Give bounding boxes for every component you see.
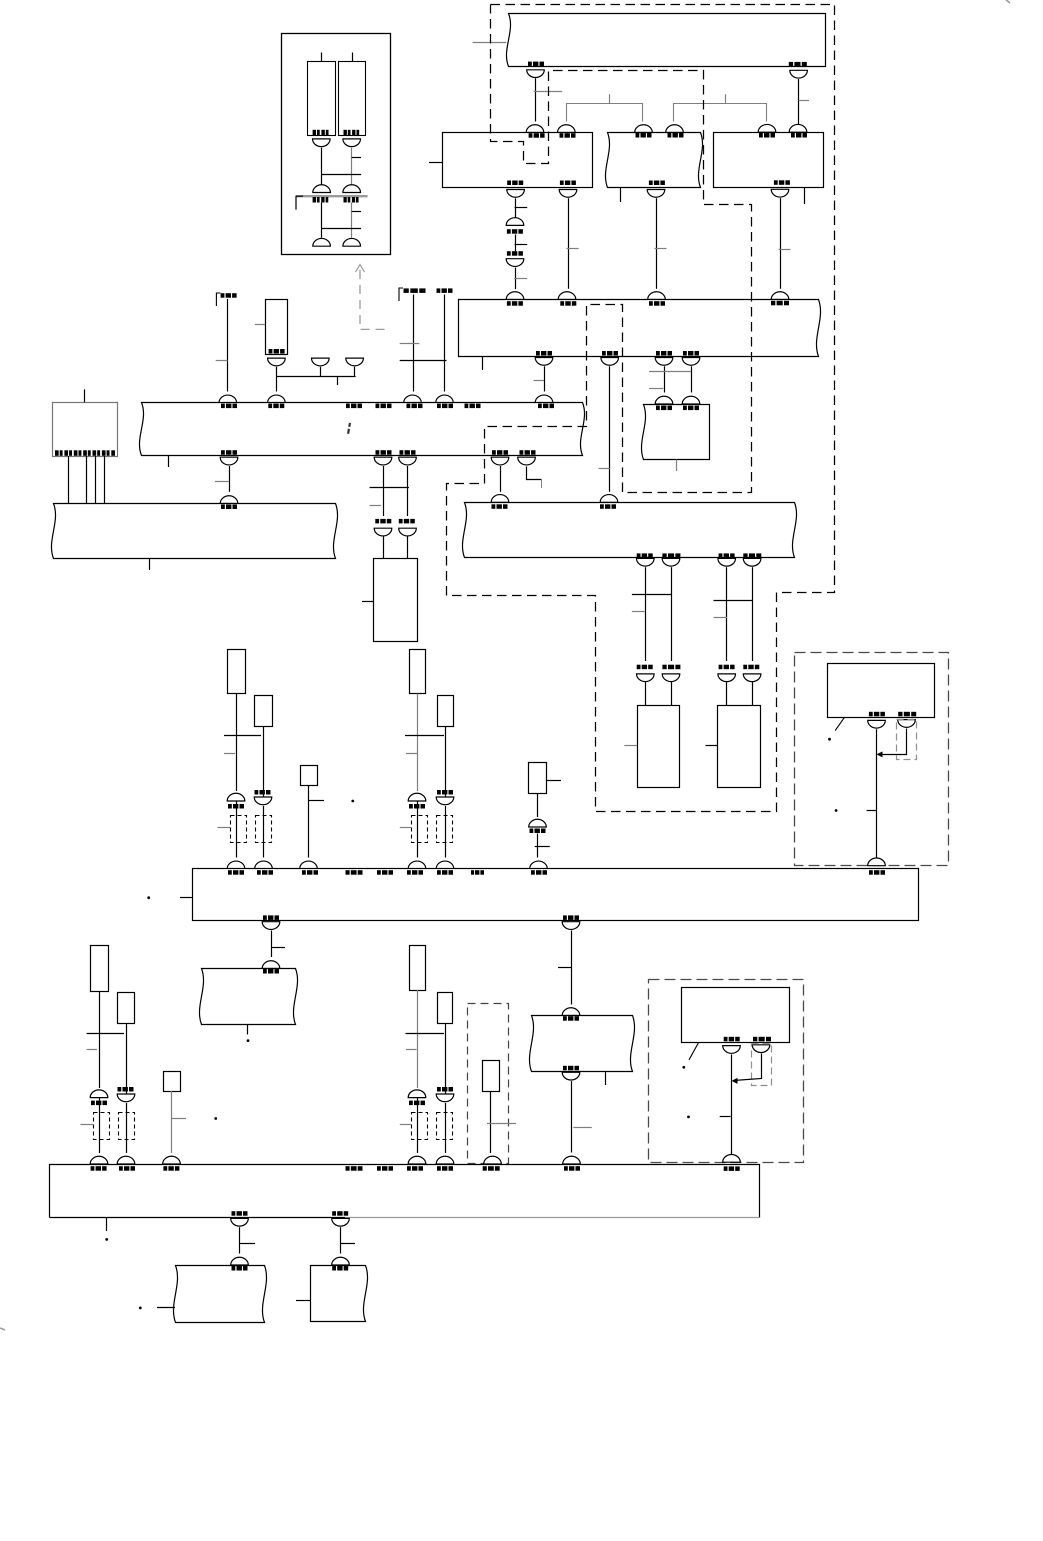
wire M-top a drop (535, 78, 537, 121)
connector bus1 e2 (374, 457, 392, 465)
label bus4 bot 2 (563, 915, 579, 920)
label J1b (507, 251, 523, 256)
connector RE1 onto bus5 (408, 1156, 426, 1164)
wire tick into D1 (400, 1124, 411, 1126)
connector R1a onto bus2 (506, 292, 524, 300)
node dot left of bus4 (147, 896, 150, 899)
wire h1 tick (240, 1243, 256, 1245)
label bus2 bot a (536, 351, 552, 356)
connector U1 bottom left (313, 238, 331, 246)
label bus1 bot 2 (376, 450, 392, 455)
label bus3 top a (492, 504, 508, 509)
label M-top pin a (528, 62, 544, 67)
component Q2 dome bracket (752, 1044, 772, 1086)
connector K2a onto bus1 (404, 395, 422, 403)
connector RC2 onto bus4 (255, 861, 273, 869)
wire R2 tick (655, 248, 667, 250)
component RB2 resistor (438, 696, 454, 727)
wire SW2 seg2 (537, 834, 539, 858)
connector on R2 a (635, 125, 653, 133)
component bracket C2 (119, 1113, 135, 1140)
connector under M-top b (790, 70, 808, 78)
connector J1b (506, 259, 524, 267)
label bus5 top 2 (119, 1166, 135, 1171)
label bus4 top 6 (407, 870, 423, 875)
connector bus4 g2 (562, 922, 580, 930)
connector U1 cell2 plug (343, 139, 361, 147)
wire tick into B1 (400, 827, 411, 829)
label bus3 bot 1 (637, 553, 653, 558)
label busL top (221, 505, 237, 510)
label bus1 bot 5 (520, 450, 536, 455)
wire R1a seg2 (515, 235, 517, 252)
wire CB1 lead4 (104, 456, 106, 504)
wire tick on drop b (799, 100, 809, 102)
label bus1 top 2 (268, 404, 284, 409)
connector on R3 a (758, 124, 776, 132)
label bus5 bot 1 (232, 1211, 248, 1216)
wire h2 tick (341, 1243, 356, 1245)
wire Q2 leader (689, 1043, 699, 1060)
connector bus3 d1 (637, 558, 655, 566)
wire R1a tick2 (515, 244, 528, 246)
wire SW3 drop (490, 1091, 492, 1153)
label bus1 bot 1 (221, 450, 237, 455)
wire R3 drop (780, 198, 782, 289)
wire e5 tick (541, 480, 543, 488)
wire RB2 seg2 (445, 806, 447, 858)
wire tick into C1 (81, 1124, 94, 1126)
label K1 bracket (216, 293, 220, 306)
connector d4 head (743, 674, 761, 682)
connector under bus2 d (682, 358, 700, 366)
label g2 (563, 1016, 579, 1021)
node arrowhead up (356, 265, 365, 273)
wire SW2 tick2 (535, 846, 550, 848)
wire RC2 seg2 (263, 806, 265, 858)
wire bus1 e1 tick (215, 481, 229, 483)
connector SW3 onto bus5 (484, 1156, 502, 1164)
label bus5 top 1 (91, 1166, 107, 1171)
connector RE2 head (436, 1094, 454, 1102)
label RE2 (437, 1087, 453, 1092)
wire RD2 seg2 (126, 1103, 128, 1153)
component bracket A1 (231, 816, 247, 843)
label CB1 pin row (55, 450, 115, 456)
component bracket D1 (412, 1113, 428, 1140)
wire g1 drop (271, 931, 273, 958)
node Q1 dot a (828, 738, 831, 741)
wire tick under bus2 (482, 357, 484, 371)
label bus2 bot b (602, 351, 618, 356)
label RB1 (409, 804, 425, 809)
node dot under bus5 (105, 1238, 108, 1241)
connector under R1 b (559, 190, 577, 198)
module CB1 connector block (53, 403, 118, 457)
wire tick into A1 (217, 827, 230, 829)
connector box6 onto bus5 (563, 1156, 581, 1164)
label bus3 bot 4 (743, 553, 761, 558)
label d2 (662, 665, 680, 670)
wire RC tick (224, 753, 235, 755)
wire g1 tick (271, 947, 285, 949)
module BUS1 main harness (139, 403, 584, 456)
label bus5 bot 2 (332, 1211, 348, 1216)
label Q2 pin b (753, 1037, 771, 1042)
connector U1 mid left (313, 185, 331, 193)
label Q2 pin a (724, 1037, 740, 1042)
wire g2 tick (558, 967, 571, 969)
label bus4 top 10 (869, 870, 885, 875)
label bus5 top 10 (724, 1166, 740, 1171)
label g1 (263, 969, 279, 974)
connector J1a (506, 218, 524, 226)
module BUS2 engine harness (459, 300, 821, 357)
label K2a (404, 288, 426, 293)
connector RB2 onto bus4 (436, 861, 454, 869)
component RC1 resistor (228, 650, 246, 694)
component bracket B2 (437, 816, 453, 843)
wire bus1 e1 drop (229, 466, 231, 492)
wire link bus a tick (609, 94, 611, 104)
wire RC2 drop (263, 726, 265, 797)
wire d1 tick (632, 611, 645, 613)
connector g1 head (262, 961, 280, 969)
wire R1b tick (567, 248, 579, 250)
label bus3 bot 2 (662, 553, 680, 558)
wire RB1 seg2 (417, 801, 419, 858)
label R3 pin top b (791, 133, 807, 138)
component SW3 switch (483, 1061, 500, 1092)
connector under bus2 b (601, 358, 619, 366)
wire tick under bus5 (106, 1218, 108, 1231)
connector under bus2 a (535, 358, 553, 366)
label U1 cell2 pins (344, 130, 360, 136)
wire left margin mark (0, 1328, 5, 1330)
wire tick under bus1 (168, 456, 170, 468)
label K2 bracket (399, 288, 403, 301)
component RE1 resistor (410, 946, 426, 991)
connector e3 head (399, 528, 417, 536)
label R3 pin bot (774, 180, 790, 185)
connector bus2b onto bus3 (600, 495, 618, 503)
label d3 (719, 665, 735, 670)
label K2b (437, 288, 453, 293)
wire RD crossbar (87, 1033, 124, 1035)
wire U1 left lead (321, 148, 323, 185)
connector RB1 head (408, 793, 426, 801)
label bus1 top 7 (465, 404, 481, 409)
wire K2b drop (444, 295, 446, 392)
wire RB tick (406, 753, 417, 755)
wire bus5 bottom edge right grey (345, 1217, 760, 1219)
component Q1 dome bracket (897, 720, 917, 760)
wire Q1 tick (867, 810, 876, 812)
wire U1 cell1 top stub (321, 53, 323, 62)
module Q2 dashed boundary (649, 980, 804, 1163)
wire tick into R1 (429, 162, 443, 164)
component bracket A2 (256, 816, 272, 843)
wire R1b drop (568, 198, 570, 288)
wire U1 crossbar a (321, 174, 361, 176)
component RE2 resistor (438, 993, 453, 1024)
label bus5 top 5 (377, 1166, 393, 1171)
wire M-top b drop (798, 79, 800, 131)
wire tick c (649, 388, 663, 390)
connector under S1 (268, 358, 286, 366)
connector under R3 (771, 189, 789, 197)
wire RE tick (406, 1049, 417, 1051)
wire RD tick (87, 1049, 97, 1051)
label h1 (232, 1266, 248, 1271)
wire d1 drop (645, 567, 647, 661)
label e3 (399, 519, 415, 524)
connector bus5 h2 (332, 1218, 350, 1226)
wire tick under R3 (804, 188, 806, 204)
wire S1 drop (276, 367, 278, 392)
node dot right of SQ2 (214, 1117, 217, 1120)
label bus4 bot 1 (263, 915, 279, 920)
label bus2 top d (771, 301, 789, 306)
connector bus3 d4 (743, 558, 761, 566)
component RB1 resistor (410, 650, 426, 694)
connector RE1 head (408, 1090, 426, 1098)
wire CB1 lead2 (86, 456, 88, 504)
wire SQ1 drop (308, 786, 310, 858)
label R1 pin top b (560, 133, 576, 138)
component S1 switch (266, 300, 288, 355)
connector bus1 e3 (399, 457, 417, 465)
module dashed option boundary (468, 1004, 509, 1164)
label bus4 top 8 (471, 870, 484, 875)
label SW2 (530, 829, 546, 834)
connector under box6 (562, 1072, 580, 1080)
wire tick under box4 (676, 460, 678, 472)
label bus5 top 4 (346, 1166, 363, 1171)
node Q1 dot b (835, 809, 838, 812)
label bus4 top 2 (257, 870, 273, 875)
connector bus2a onto bus1 (535, 395, 553, 403)
wire d4 drop (752, 567, 754, 661)
wire SW2 tick (546, 780, 561, 782)
connector under bus2 c (655, 358, 673, 366)
connector under Q2 b (752, 1045, 770, 1053)
label bus5 top 9 (564, 1166, 580, 1171)
label R2 pin top a (636, 133, 652, 138)
label bus5 top 7 (437, 1166, 453, 1171)
wire grey dashed arrow to U1 (360, 270, 391, 329)
wire e2 tick grey (370, 505, 381, 507)
wire e3 drop (407, 466, 409, 516)
label M-top pin b (789, 62, 807, 67)
connector K1 onto bus1 (219, 395, 237, 403)
label bus1 top 1 (221, 404, 237, 409)
label e2 (375, 519, 391, 524)
wire U1 tick b (352, 211, 361, 213)
component bracket B1 (412, 816, 428, 843)
wire d2 stub (671, 682, 673, 705)
wire SW2 drop (537, 793, 539, 817)
connector bus1 e5 (518, 457, 536, 465)
wire box6 drop (571, 1081, 573, 1152)
wire tick into S1 (255, 324, 265, 326)
label R1 pin bot a (507, 181, 523, 186)
wire bus2a drop (544, 366, 546, 391)
wire RE2 seg2 (445, 1103, 447, 1153)
wire d3d4 crossbar (714, 600, 753, 602)
wire Q1a drop (876, 729, 878, 858)
wire link bus b (674, 104, 767, 122)
wire K1 tick (216, 360, 228, 362)
wire bus2c drop (664, 366, 666, 392)
wire d3 drop (726, 567, 728, 661)
module BUSL body harness (51, 504, 337, 559)
connector on R3 b (789, 124, 807, 132)
connector U1 cell1 plug (313, 139, 331, 147)
connector on R1 b (558, 125, 576, 133)
component U1 cell1 (308, 62, 336, 136)
wire SW3 tick (487, 1123, 516, 1125)
wire dashed harness boundary loop (447, 5, 835, 812)
wire tick into boxx (362, 601, 374, 603)
connector on R2 b (666, 125, 684, 133)
wire U1 grey bus bar (296, 195, 368, 197)
connector K2b onto bus1 (436, 395, 454, 403)
wire tick under busL (149, 558, 151, 570)
component SQ1 sensor (301, 766, 318, 786)
wire tick into M-top (473, 42, 507, 44)
connector SQ2 onto bus5 (163, 1156, 181, 1164)
connector g2 head (562, 1008, 580, 1016)
connector under R1 a (507, 190, 525, 198)
label bus4 top 5 (377, 870, 393, 875)
connector RD2 onto bus5 (117, 1156, 135, 1164)
connector bus4 g1 (262, 922, 280, 930)
wire U1 left lead 2 (321, 203, 323, 238)
label U1 cell1 pins (313, 130, 329, 136)
wire RD1 seg2 (99, 1098, 101, 1153)
wire SQ2 drop (171, 1091, 173, 1153)
module U1 outer box (282, 34, 391, 255)
wire bus2a tick (534, 380, 545, 382)
wire bus2b drop (609, 366, 611, 492)
label bus2 top b (560, 301, 576, 306)
wire RE1 seg2 (417, 1098, 419, 1153)
node Q2 junction arrow (732, 1078, 738, 1084)
wire R1a seg1 (515, 198, 517, 217)
label bus5 top 3 (163, 1166, 179, 1171)
label bus2 top c (649, 301, 665, 306)
module R2 junction (605, 133, 702, 188)
wire R2 drop (656, 198, 658, 288)
node dot under box5 (247, 1039, 250, 1042)
module BUS3 floor harness (462, 503, 796, 558)
module Q1 dashed boundary (795, 653, 949, 866)
label bus5 top 8 (483, 1166, 500, 1171)
label R2 pin bot (649, 181, 665, 186)
wire S1 link tick (337, 377, 339, 386)
wire RB2 drop (445, 726, 447, 797)
connector bus5 h1 (231, 1218, 249, 1226)
connector h1 head (231, 1257, 249, 1265)
label box4 pin a (656, 406, 672, 411)
connector on R1 a (526, 125, 544, 133)
connector F1 (312, 358, 330, 366)
module BOX8 rear harness (173, 1266, 266, 1323)
wire bus2d drop (691, 366, 693, 392)
label bus5 top 6 (407, 1166, 423, 1171)
connector R2 onto bus2 (648, 292, 666, 300)
node Q2 dot b (687, 1116, 690, 1119)
connector R1b onto bus2 (558, 292, 576, 300)
label bus2 top a (507, 301, 523, 306)
wire U1 bus bar corner (296, 196, 303, 209)
label bus3 bot 3 (719, 553, 735, 558)
wire tick into P1 (624, 745, 637, 747)
connector d3 head (718, 674, 736, 682)
connector RC1 head (227, 793, 245, 801)
label bus1 top 4 (376, 404, 392, 409)
connector bus1 e4 (491, 457, 509, 465)
module BOX6 console harness (529, 1016, 634, 1072)
node dot near A group (351, 800, 354, 803)
wire d1d2 crossbar (632, 594, 671, 596)
wire d4 stub (752, 682, 754, 705)
wire Q1 leader (835, 718, 844, 731)
label K1 (221, 293, 237, 298)
module M-top power distribution box (506, 14, 825, 67)
label bus2 bot c (656, 351, 672, 356)
connector e2 head (374, 528, 392, 536)
module BOX4 fuse unit (641, 405, 709, 460)
wire RC1 drop (236, 694, 238, 792)
connector R3 onto bus2 (771, 292, 789, 300)
module P1 lamp unit (638, 706, 680, 788)
label RD2 (118, 1087, 134, 1092)
connector under Q1 b (898, 720, 916, 728)
wire F1 stem (320, 367, 322, 377)
wire g2 drop (571, 931, 573, 1005)
label bus1 bot 4 (492, 450, 508, 455)
wire RC1 seg2 (236, 801, 238, 858)
connector Q1 onto bus4 (868, 858, 886, 866)
label R1 pin top a (529, 133, 545, 138)
connector under R2 (647, 190, 665, 198)
label R1 pin bot b (560, 181, 576, 186)
label bus4 top 3 (302, 870, 318, 875)
wire tick under box6 right (605, 1072, 607, 1086)
label bus2 bot d (683, 351, 699, 356)
label R2 pin top b (668, 133, 684, 138)
connector U1 bottom right (343, 238, 361, 246)
wire Q2 tick (720, 1116, 731, 1118)
wire RD1 drop (99, 991, 101, 1088)
node Q1 junction arrow (877, 751, 883, 757)
wire RB1 drop (417, 694, 419, 792)
module BOX9 rear unit (311, 1266, 368, 1322)
wire tick into bus4 (180, 897, 192, 899)
wire RD2 drop (126, 1023, 128, 1094)
wire tick into box8 (157, 1307, 175, 1309)
component bracket C1 (94, 1113, 110, 1140)
connector RD1 onto bus5 (90, 1156, 108, 1164)
wire box6 tick (573, 1127, 592, 1129)
wire R1a seg3 (515, 268, 517, 290)
label bus1 top 8 (538, 404, 554, 409)
connector h2 head (332, 1257, 350, 1265)
wire d1 stub (645, 682, 647, 705)
component RC2 resistor (255, 696, 273, 727)
